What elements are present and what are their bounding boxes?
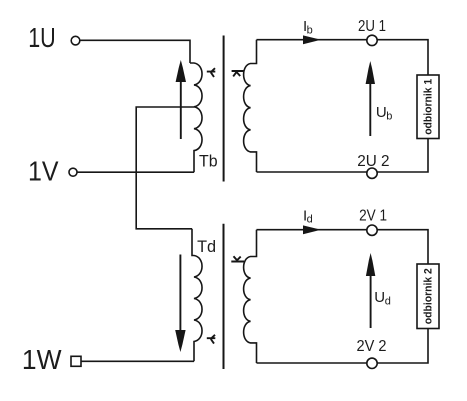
voltage arrow Ub: [366, 61, 375, 136]
arrow Tb primary (up): [176, 60, 186, 139]
svg-text:d: d: [307, 214, 313, 226]
svg-text:Tb: Tb: [199, 151, 218, 170]
voltage arrow Ud: [366, 253, 375, 328]
transformer Tb secondary winding: [244, 40, 257, 172]
svg-text:b: b: [386, 110, 392, 122]
arrow Td primary (down): [175, 255, 185, 353]
svg-text:d: d: [385, 295, 391, 307]
wire 1U to Tb primary top: [80, 40, 190, 63]
core Tb: [223, 36, 225, 182]
terminal 2U1: [367, 35, 377, 45]
polarity mark Tb secondary: [232, 71, 244, 76]
svg-text:2V 1: 2V 1: [359, 207, 387, 224]
load box odbiornik 1: [417, 75, 439, 139]
svg-text:2V 2: 2V 2: [357, 338, 387, 355]
center tap wire to Td: [136, 107, 194, 229]
polarity mark Tb primary: [207, 68, 216, 77]
core Td: [223, 224, 225, 369]
svg-text:odbiornik 2: odbiornik 2: [422, 268, 434, 324]
polarity mark Td secondary: [231, 256, 244, 261]
terminal 1U: [71, 36, 80, 45]
load box odbiornik 2: [417, 264, 439, 329]
svg-text:Td: Td: [197, 237, 216, 256]
svg-text:U: U: [376, 104, 387, 121]
svg-text:1U: 1U: [28, 22, 56, 53]
current arrow Id: [303, 225, 321, 234]
svg-text:2U 2: 2U 2: [357, 153, 389, 170]
wire Td primary bottom to 1W: [81, 360, 194, 362]
svg-text:1W: 1W: [22, 344, 62, 375]
transformer Td secondary winding: [244, 230, 257, 363]
wire 1V to Tb primary bottom: [77, 171, 194, 173]
svg-text:2U 1: 2U 1: [358, 18, 386, 35]
svg-text:odbiornik 1: odbiornik 1: [422, 79, 434, 135]
svg-text:b: b: [307, 24, 313, 36]
bottom loop wires: [257, 230, 429, 363]
svg-text:U: U: [374, 289, 385, 306]
terminal 2V1: [367, 225, 377, 235]
terminal 2U2: [367, 168, 377, 178]
terminal 2V2: [367, 358, 377, 368]
current arrow Ib: [303, 35, 321, 44]
transformer Tb primary winding: [190, 63, 202, 172]
svg-text:1V: 1V: [28, 156, 59, 187]
terminal 1V: [69, 168, 77, 176]
top loop wires: [257, 40, 429, 172]
terminal 1W: [71, 356, 81, 366]
polarity mark Td primary: [207, 335, 216, 344]
transformer Td primary winding: [192, 229, 202, 361]
